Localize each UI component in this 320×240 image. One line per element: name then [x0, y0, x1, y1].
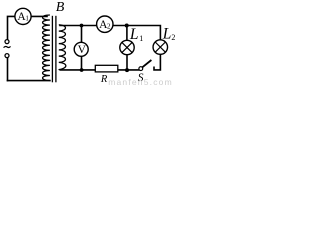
voltmeter V [74, 42, 88, 56]
wire secondary top left [60, 25, 97, 27]
junction dot voltmeter top [80, 24, 84, 28]
lamp L2 [153, 40, 168, 55]
wire voltmeter branch lower [81, 56, 83, 70]
switch S pivot [139, 67, 143, 71]
wire L1 branch lower [126, 55, 128, 70]
wire primary left lower [7, 58, 9, 81]
ammeter A2 [97, 16, 113, 32]
svg-text:2: 2 [171, 33, 175, 42]
svg-text:1: 1 [25, 15, 29, 23]
AC source terminal top [5, 40, 9, 44]
wire voltmeter branch upper [81, 26, 83, 43]
resistor R [95, 65, 118, 72]
transformer secondary coil [59, 25, 66, 70]
svg-text:R: R [100, 74, 108, 85]
wire primary top (A1 to transformer) [31, 15, 47, 17]
junction dot voltmeter bottom [80, 68, 84, 72]
lamp L1 [120, 40, 134, 54]
wire secondary coil bottom tail [59, 68, 62, 71]
wire secondary bottom left [61, 69, 96, 71]
svg-text:L: L [162, 26, 172, 43]
svg-text:2: 2 [107, 23, 111, 31]
svg-text:1: 1 [139, 34, 143, 43]
wire switch contact to L2 bottom corner [154, 54, 160, 70]
AC source tilde [4, 46, 11, 47]
transformer core [51, 16, 53, 83]
svg-text:V: V [78, 44, 87, 56]
wire L1 branch upper [126, 26, 128, 41]
svg-text:L: L [129, 26, 139, 43]
wire primary top-left corner [8, 16, 15, 39]
junction dot L1 bottom [125, 68, 129, 72]
wire resistor to switch [118, 69, 139, 71]
switch S blade [142, 60, 151, 67]
svg-text:manfen5.com: manfen5.com [108, 77, 173, 86]
ammeter A1 [15, 8, 31, 24]
svg-text:B: B [56, 0, 65, 15]
wire secondary top right + corner down to L2 [113, 26, 160, 40]
AC source terminal bottom [5, 54, 9, 58]
junction dot L1 top [125, 24, 129, 28]
transformer primary coil [43, 15, 50, 81]
wire primary bottom [8, 80, 50, 82]
